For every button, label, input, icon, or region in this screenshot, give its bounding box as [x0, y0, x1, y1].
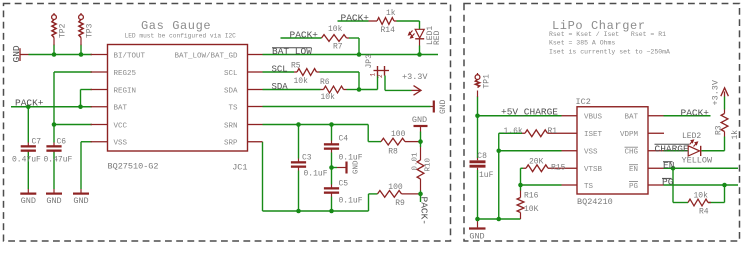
svg-text:VSS: VSS	[584, 149, 598, 157]
svg-text:BQ24210: BQ24210	[577, 197, 613, 207]
svg-text:Kset = 385 A Ohms: Kset = 385 A Ohms	[549, 40, 615, 47]
svg-text:TS: TS	[584, 183, 594, 191]
svg-text:JP3: JP3	[365, 54, 374, 69]
svg-text:R16: R16	[524, 192, 539, 201]
svg-text:R8: R8	[388, 148, 398, 157]
svg-text:1: 1	[369, 73, 376, 77]
svg-text:R5: R5	[291, 62, 301, 71]
svg-text:C6: C6	[57, 138, 67, 147]
svg-text:100: 100	[391, 130, 406, 139]
svg-text:1uF: 1uF	[479, 171, 494, 180]
svg-text:BI/TOUT: BI/TOUT	[114, 52, 146, 60]
svg-text:GND: GND	[73, 196, 88, 206]
svg-text:0.47uF: 0.47uF	[12, 156, 41, 165]
svg-text:R9: R9	[395, 199, 405, 208]
svg-text:0.1uF: 0.1uF	[339, 197, 363, 206]
svg-text:Rset = Kset / Iset Rset = R1: Rset = Kset / Iset Rset = R1	[549, 31, 666, 38]
svg-text:C3: C3	[302, 154, 312, 163]
svg-text:BAT: BAT	[624, 114, 638, 122]
svg-text:RED: RED	[433, 30, 442, 45]
svg-text:2: 2	[377, 74, 384, 78]
svg-text:GND: GND	[353, 160, 361, 174]
svg-text:R4: R4	[699, 208, 709, 217]
svg-text:GND: GND	[11, 45, 22, 62]
svg-text:EN: EN	[629, 166, 638, 174]
svg-text:VSS: VSS	[114, 140, 128, 148]
svg-text:VBUS: VBUS	[584, 114, 603, 122]
svg-text:IC2: IC2	[576, 97, 591, 107]
svg-text:10K: 10K	[524, 205, 539, 214]
svg-text:20K: 20K	[529, 158, 544, 167]
svg-text:VTSB: VTSB	[584, 166, 603, 174]
svg-text:SCL: SCL	[272, 65, 288, 75]
svg-text:C4: C4	[339, 135, 349, 144]
svg-text:C7: C7	[32, 138, 42, 147]
svg-text:10k: 10k	[294, 77, 309, 86]
svg-text:PACK+: PACK+	[341, 12, 370, 23]
svg-text:R3: R3	[715, 125, 724, 135]
svg-text:R14: R14	[381, 26, 396, 35]
svg-text:VCC: VCC	[114, 122, 128, 130]
svg-text:C5: C5	[339, 180, 349, 189]
svg-text:REG25: REG25	[114, 70, 137, 78]
svg-text:10k: 10k	[694, 192, 709, 201]
svg-text:BAT_LOW/BAT_GD: BAT_LOW/BAT_GD	[174, 52, 238, 60]
svg-text:0.01: 0.01	[411, 152, 419, 171]
svg-text:TP1: TP1	[483, 74, 492, 89]
svg-text:0.47uF: 0.47uF	[44, 156, 73, 165]
svg-text:LED2: LED2	[682, 132, 701, 141]
svg-text:VDPM: VDPM	[620, 131, 639, 139]
svg-text:GND: GND	[46, 196, 61, 206]
svg-text:PACK+: PACK+	[15, 98, 44, 109]
svg-text:PACK-: PACK-	[419, 197, 430, 226]
svg-text:TS: TS	[228, 105, 238, 113]
svg-text:CHARGE: CHARGE	[655, 144, 690, 155]
svg-text:+3.3V: +3.3V	[402, 72, 428, 82]
svg-text:BAT: BAT	[114, 105, 128, 113]
svg-text:JC1: JC1	[232, 163, 247, 173]
svg-text:+5V_CHARGE: +5V_CHARGE	[501, 107, 558, 118]
svg-text:1k: 1k	[731, 130, 740, 140]
svg-text:C8: C8	[477, 152, 487, 161]
svg-text:SDA: SDA	[272, 82, 289, 92]
svg-text:Iset is currently set to ~250m: Iset is currently set to ~250mA	[549, 48, 670, 55]
svg-text:100: 100	[388, 183, 403, 192]
svg-text:R1: R1	[548, 127, 558, 136]
svg-text:ISET: ISET	[584, 131, 603, 139]
svg-text:YELLOW: YELLOW	[682, 156, 714, 166]
svg-text:TP2: TP2	[59, 23, 68, 38]
svg-text:PACK+: PACK+	[290, 29, 319, 40]
svg-text:SRP: SRP	[224, 140, 238, 148]
svg-text:0.1uF: 0.1uF	[304, 170, 328, 179]
svg-text:GND: GND	[469, 232, 484, 242]
svg-text:SCL: SCL	[224, 70, 238, 78]
svg-text:PACK+: PACK+	[681, 107, 710, 118]
svg-text:BQ27510-G2: BQ27510-G2	[108, 162, 159, 172]
svg-text:+3.3V: +3.3V	[711, 79, 721, 105]
svg-text:1k: 1k	[386, 9, 396, 18]
svg-text:GND: GND	[412, 115, 427, 125]
svg-text:R7: R7	[333, 43, 343, 52]
svg-text:Gas Gauge: Gas Gauge	[141, 19, 211, 33]
svg-text:R6: R6	[320, 78, 330, 87]
svg-text:REGIN: REGIN	[114, 87, 137, 95]
svg-text:PG: PG	[629, 183, 639, 191]
svg-text:GND: GND	[439, 99, 448, 114]
svg-text:1.6k: 1.6k	[504, 127, 523, 136]
svg-text:LED must be configured via I2C: LED must be configured via I2C	[125, 33, 237, 40]
svg-text:SDA: SDA	[224, 87, 238, 95]
svg-text:GND: GND	[21, 196, 36, 206]
svg-text:R15: R15	[551, 164, 566, 173]
svg-text:R10: R10	[424, 157, 432, 171]
svg-text:10k: 10k	[321, 93, 336, 102]
svg-text:CHG: CHG	[624, 149, 638, 157]
svg-text:SRN: SRN	[224, 122, 238, 130]
svg-text:10k: 10k	[328, 25, 343, 34]
svg-text:TP3: TP3	[86, 23, 95, 38]
